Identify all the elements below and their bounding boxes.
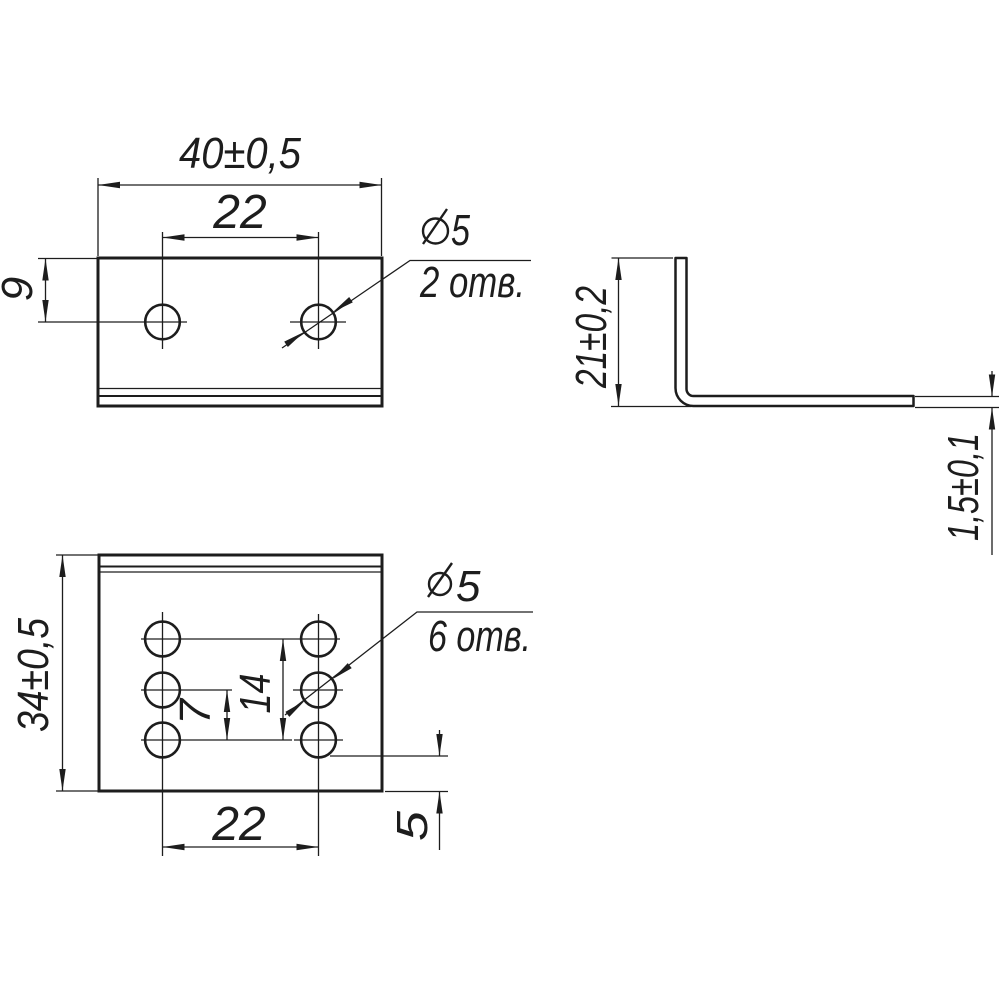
svg-text:22: 22 [212,186,266,239]
bend edge line [98,395,382,397]
svg-text:6 отв.: 6 отв. [428,612,531,661]
dimension 5 [330,730,448,850]
dimension 21±0,2 [611,258,691,407]
bend edge line [99,566,382,568]
centerline vertical hole H1 [162,232,164,349]
centerline horizontal right [290,321,346,323]
leader arrowheads on middle-right hole [330,663,351,682]
L-profile outline [676,258,914,406]
bend tangent line thin [98,388,382,390]
dimension 40±0,5 [98,178,382,256]
text ø5 (2 holes) [423,206,470,255]
dimension 22 top [163,237,319,239]
text ø5 (6 holes) [428,562,481,611]
plate outline top view [98,258,382,406]
leader arrowheads on hole H2 [331,297,353,315]
svg-text:5: 5 [451,206,470,255]
svg-text:14: 14 [231,674,280,714]
svg-text:22: 22 [211,798,265,851]
dimension 1,5±0,1 [915,371,999,555]
centerline vertical hole H2 [318,232,320,349]
dimension 7 [226,690,228,740]
dimension 9 [38,259,97,323]
svg-text:40±0,5: 40±0,5 [179,129,301,178]
svg-text:5: 5 [388,810,437,841]
svg-text:5: 5 [456,562,481,611]
dimension 14 [282,639,284,740]
centerline horizontal left [38,321,187,323]
svg-text:21±0,2: 21±0,2 [567,286,616,389]
plate outline bottom view [99,555,382,791]
svg-text:1,5±0,1: 1,5±0,1 [939,433,988,541]
hole H1 top view [145,305,180,340]
svg-text:9: 9 [0,277,42,301]
bend tangent line thin [99,571,382,573]
svg-text:2 отв.: 2 отв. [419,258,525,307]
leader ø5 2 отв. [282,261,531,349]
holes 6x bottom view [145,622,336,758]
centerlines bottom view [141,612,343,856]
dimension 34±0,5 [56,555,98,791]
hole H2 top view [301,305,336,340]
leader ø5 6 отв. [285,612,533,715]
svg-text:34±0,5: 34±0,5 [9,618,58,732]
dimension 22 bottom [163,846,319,848]
svg-text:7: 7 [171,697,220,725]
